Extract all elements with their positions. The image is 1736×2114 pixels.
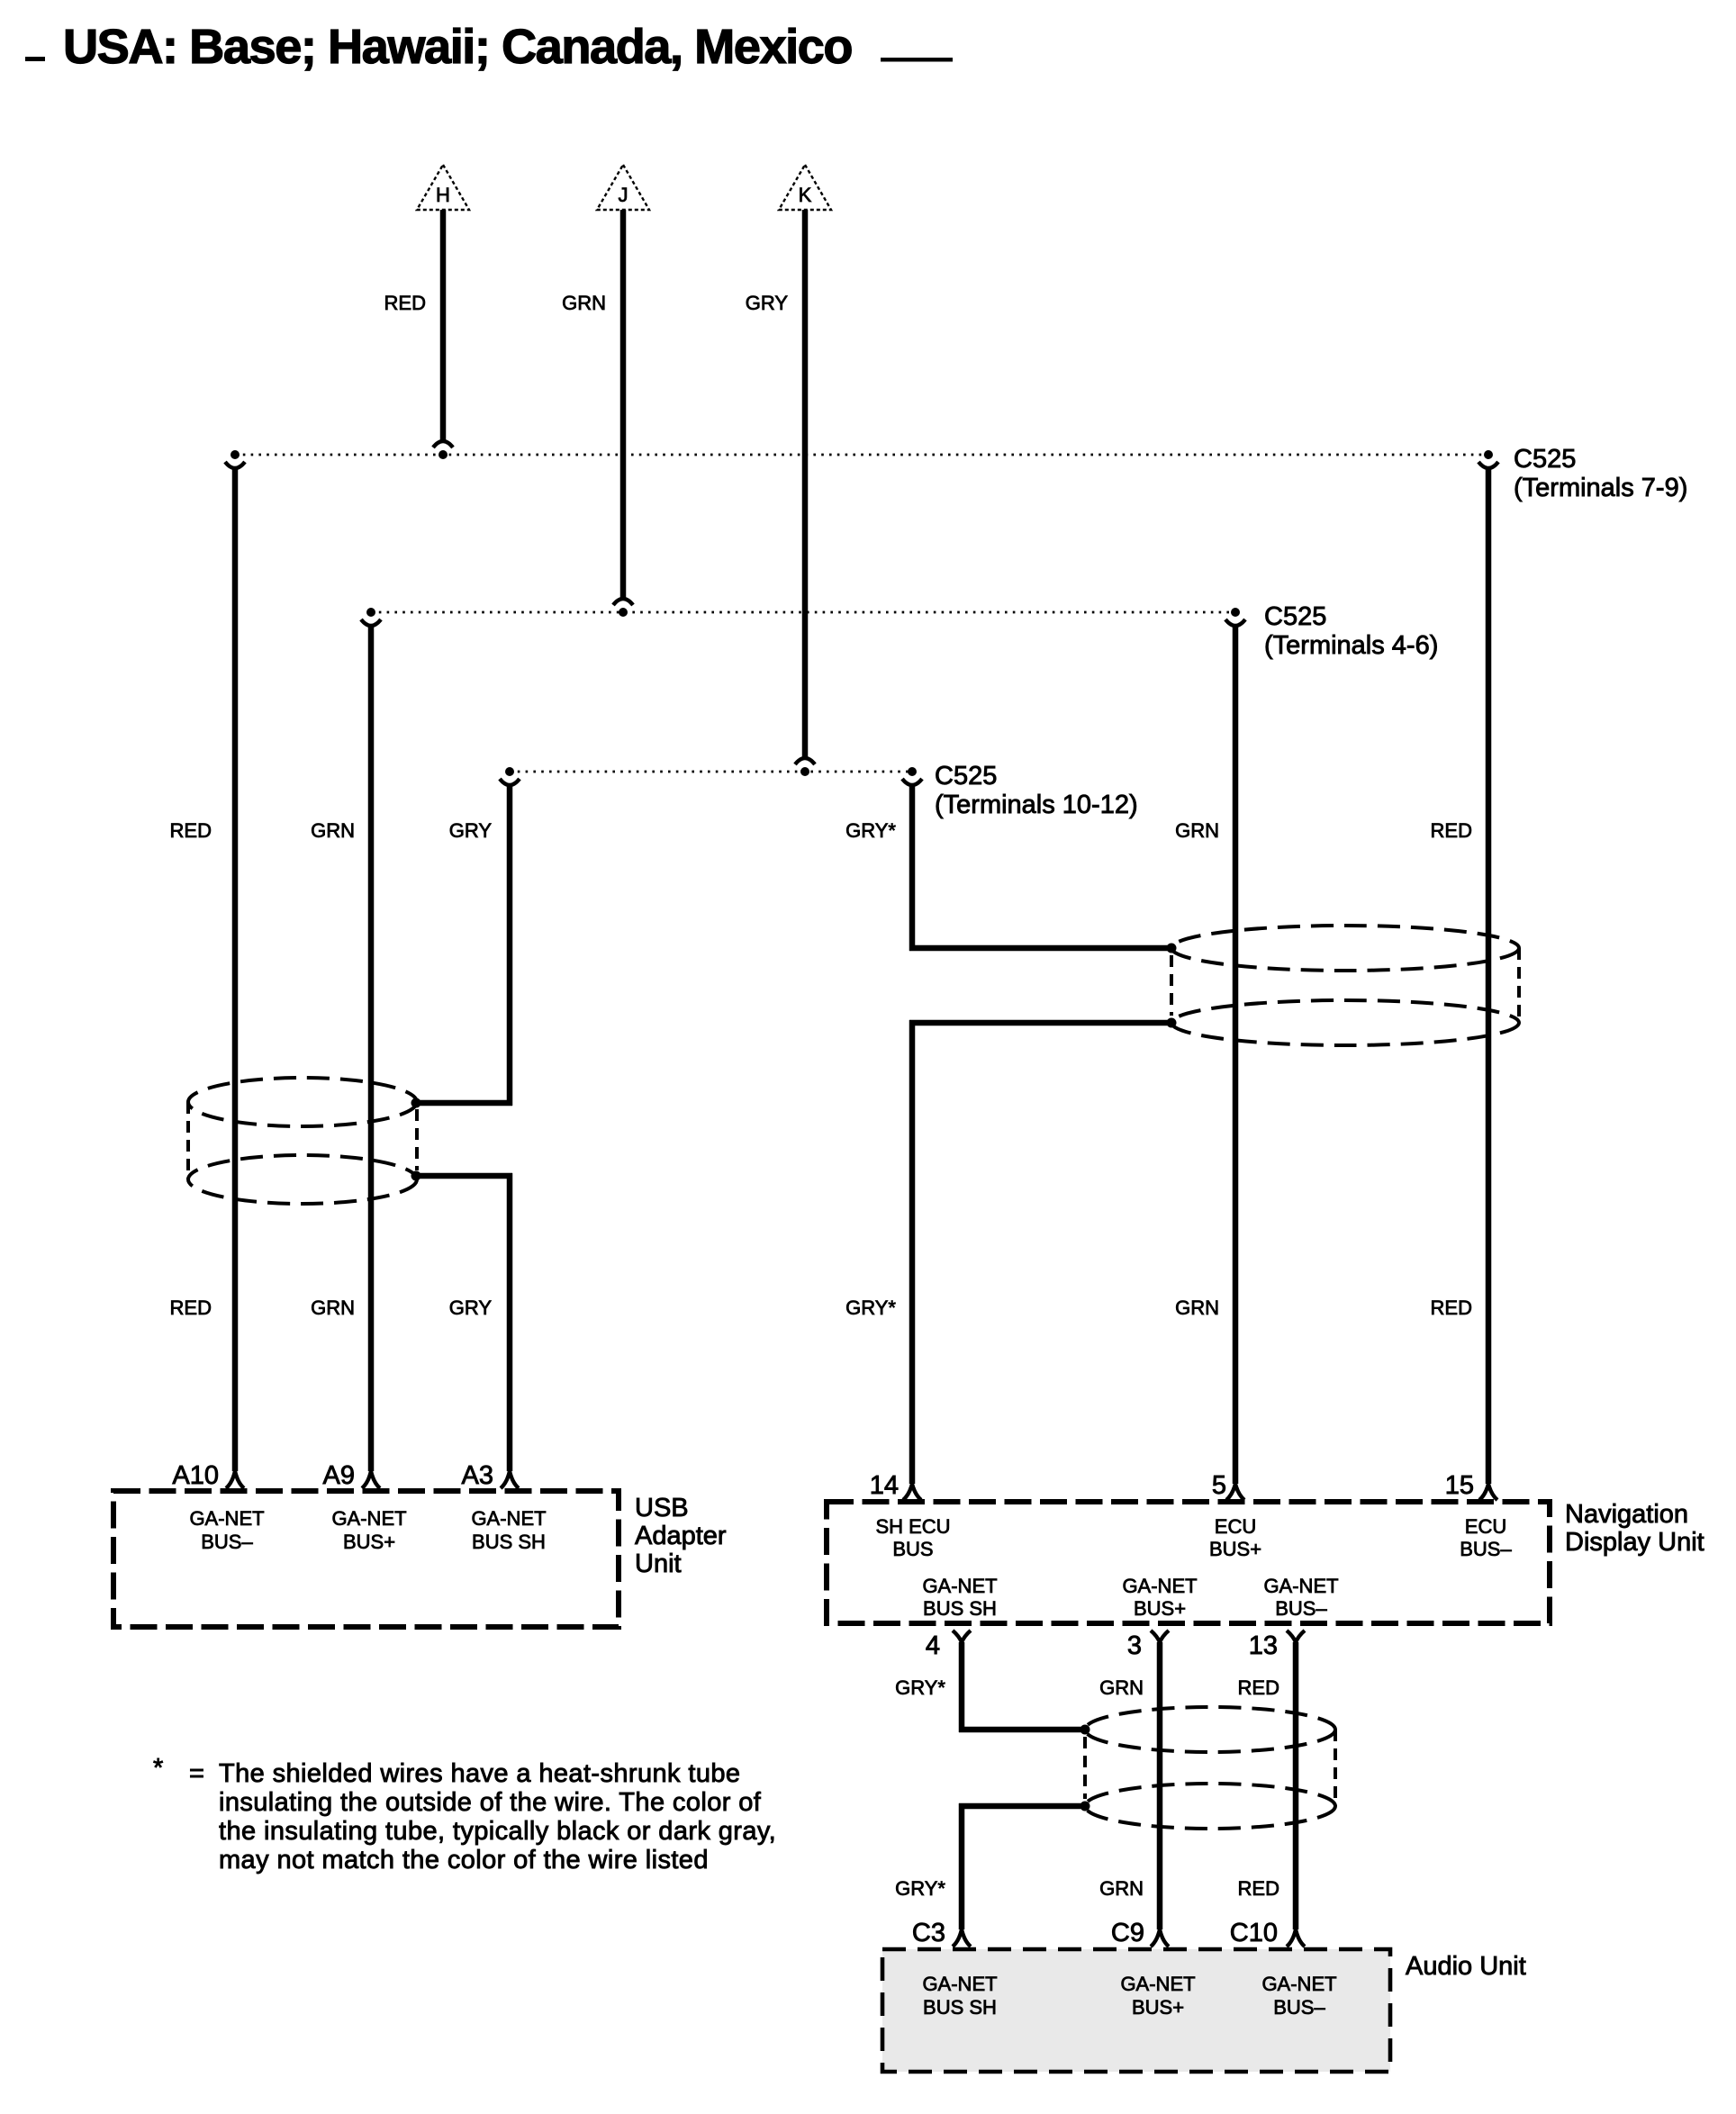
svg-text:ECU: ECU	[1465, 1515, 1506, 1538]
wire H (RED) from triangle H down to C525 terminals 7-9	[440, 210, 447, 442]
terminal fork 15	[1479, 1484, 1497, 1500]
terminal cup (GRN wire start) at C525 4-6 right	[1225, 619, 1245, 626]
svg-text:BUS SH: BUS SH	[923, 1597, 997, 1620]
terminal fork 13 (NAV bottom)	[1287, 1631, 1305, 1642]
svg-text:BUS SH: BUS SH	[923, 1996, 997, 2019]
svg-text:insulating the outside of the: insulating the outside of the wire. The …	[219, 1788, 762, 1817]
svg-text:GRY: GRY	[449, 1296, 493, 1319]
svg-text:14: 14	[870, 1471, 899, 1500]
junction dot left end C525 7-9	[231, 450, 240, 459]
svg-text:4: 4	[926, 1631, 940, 1660]
terminal fork A10	[226, 1471, 244, 1488]
svg-text:The shielded wires have a heat: The shielded wires have a heat-shrunk tu…	[219, 1759, 740, 1788]
wire GRN left (C525 4-6 to USB A9)	[368, 626, 375, 1471]
svg-text:GRY: GRY	[449, 819, 493, 842]
svg-text:BUS–: BUS–	[201, 1531, 253, 1553]
svg-text:=: =	[189, 1759, 204, 1788]
svg-text:A3: A3	[462, 1461, 493, 1490]
title trailing rule	[881, 58, 953, 62]
terminal cup (wire K end) at C525 10-12	[795, 758, 815, 764]
shield cylinder right (around GRN and RED wires)	[1171, 926, 1519, 1045]
svg-text:Navigation: Navigation	[1565, 1500, 1688, 1529]
wire RED right (C525 7-9 to NAV 15)	[1486, 468, 1492, 1484]
wire GRN audio (NAV 3 to AUDIO C9)	[1157, 1642, 1163, 1929]
connector C525 terminals 10-12 dotted junction line	[510, 771, 912, 773]
svg-text:BUS–: BUS–	[1460, 1538, 1512, 1560]
svg-text:GA-NET: GA-NET	[1261, 1973, 1336, 1995]
wire GRN right (C525 4-6 to NAV 5)	[1233, 626, 1239, 1484]
junction dot right end C525 7-9	[1484, 450, 1493, 459]
svg-text:A9: A9	[323, 1461, 355, 1490]
terminal fork 4 (NAV bottom)	[953, 1631, 971, 1642]
connector triangle J	[597, 165, 649, 210]
svg-text:C525: C525	[1514, 445, 1576, 474]
connector triangle K	[779, 165, 831, 210]
svg-text:Adapter: Adapter	[635, 1522, 727, 1550]
svg-text:RED: RED	[1238, 1877, 1279, 1900]
terminal fork C3	[953, 1929, 971, 1947]
svg-text:RED: RED	[170, 819, 212, 842]
terminal fork C10	[1287, 1929, 1305, 1947]
svg-text:(Terminals 10-12): (Terminals 10-12)	[935, 790, 1138, 819]
svg-text:BUS+: BUS+	[1209, 1538, 1261, 1560]
terminal fork 14	[903, 1484, 921, 1500]
junction dot K / C525 10-12	[800, 767, 809, 776]
terminal fork C9	[1151, 1929, 1169, 1947]
svg-text:GRY*: GRY*	[895, 1676, 945, 1699]
svg-text:GA-NET: GA-NET	[331, 1507, 406, 1530]
svg-text:BUS: BUS	[892, 1538, 933, 1560]
svg-text:*: *	[153, 1754, 163, 1783]
junction dot H / C525 7-9	[439, 450, 448, 459]
svg-text:BUS+: BUS+	[1134, 1597, 1186, 1620]
svg-text:BUS+: BUS+	[1132, 1996, 1184, 2019]
wire GRY* audio lower segment (shield to AUDIO C3)	[959, 1803, 965, 1929]
wire GRY* jog from audio shield bottom	[959, 1803, 1085, 1810]
svg-text:GRY*: GRY*	[845, 1296, 896, 1319]
wire GRY* jog to shield top (right)	[909, 945, 1171, 952]
svg-text:13: 13	[1249, 1631, 1278, 1660]
connector triangle H	[417, 165, 469, 210]
Navigation Display Unit box	[827, 1502, 1550, 1623]
wire GRY* audio upper segment (NAV 4 down)	[959, 1642, 965, 1732]
terminal cup (RED wire start) at C525 7-9 left	[225, 462, 245, 468]
terminal cup (RED wire start) at C525 7-9 right	[1478, 462, 1498, 468]
junction dot left end C525 4-6	[366, 608, 375, 617]
terminal fork A3	[501, 1471, 519, 1488]
svg-text:C525: C525	[935, 762, 997, 790]
svg-text:may not match the color of the: may not match the color of the wire list…	[219, 1846, 709, 1875]
svg-text:K: K	[799, 184, 812, 206]
svg-text:SH ECU: SH ECU	[875, 1515, 950, 1538]
wire GRY* right upper segment (C525 10-12 down)	[909, 785, 916, 951]
svg-text:A10: A10	[172, 1461, 219, 1490]
junction dot right end C525 4-6	[1231, 608, 1240, 617]
junction dot left end C525 10-12	[505, 767, 514, 776]
svg-text:Display Unit: Display Unit	[1565, 1528, 1704, 1557]
wire J (GRN) from triangle J down to C525 terminals 4-6	[620, 210, 627, 600]
wire RED audio (NAV 13 to AUDIO C10)	[1293, 1642, 1299, 1929]
terminal cup (wire H end) at C525 7-9	[433, 441, 453, 447]
svg-text:GA-NET: GA-NET	[189, 1507, 264, 1530]
terminal cup (GRN wire start) at C525 4-6 left	[361, 619, 381, 626]
svg-text:C525: C525	[1264, 602, 1326, 631]
svg-text:C9: C9	[1111, 1919, 1144, 1947]
shield cylinder audio (around GRN and RED wires)	[1085, 1707, 1335, 1829]
wire RED left (C525 7-9 to USB A10)	[232, 468, 239, 1471]
svg-text:5: 5	[1212, 1471, 1226, 1500]
svg-text:USA: Base; Hawaii; Canada, Mex: USA: Base; Hawaii; Canada, Mexico	[63, 20, 852, 74]
svg-text:GRN: GRN	[311, 1296, 355, 1319]
svg-text:BUS+: BUS+	[343, 1531, 395, 1553]
terminal fork 5	[1226, 1484, 1244, 1500]
terminal fork 3 (NAV bottom)	[1151, 1631, 1169, 1642]
svg-text:(Terminals 7-9): (Terminals 7-9)	[1514, 474, 1687, 502]
svg-text:GA-NET: GA-NET	[922, 1973, 997, 1995]
svg-text:Audio Unit: Audio Unit	[1406, 1952, 1526, 1981]
svg-text:GRN: GRN	[1175, 1296, 1219, 1319]
svg-text:the insulating tube, typically: the insulating tube, typically black or …	[219, 1817, 776, 1846]
wire GRY* right lower segment (shield to NAV 14)	[909, 1020, 916, 1484]
connector C525 terminals 7-9 dotted junction line	[235, 454, 1488, 456]
shield junction dot left-bottom	[411, 1171, 421, 1181]
wire GRY left upper segment (C525 10-12 down)	[507, 785, 513, 1106]
svg-text:(Terminals 4-6): (Terminals 4-6)	[1264, 631, 1438, 660]
Audio Unit box	[882, 1949, 1390, 2072]
svg-text:Unit: Unit	[635, 1549, 682, 1578]
shield junction dot right-bottom	[1167, 1018, 1177, 1028]
wire GRY* jog from shield bottom (right)	[909, 1020, 1171, 1026]
svg-text:ECU: ECU	[1215, 1515, 1256, 1538]
terminal cup (wire J end) at C525 4-6	[613, 599, 633, 605]
svg-text:H: H	[436, 184, 450, 206]
svg-text:GRN: GRN	[1099, 1676, 1144, 1699]
shield junction dot audio-top	[1080, 1725, 1090, 1735]
connector C525 terminals 4-6 dotted junction line	[371, 611, 1235, 614]
svg-text:GRN: GRN	[562, 292, 606, 314]
svg-text:3: 3	[1127, 1631, 1142, 1660]
wire GRY jog to shield top (left)	[416, 1100, 512, 1107]
svg-text:C3: C3	[912, 1919, 945, 1947]
svg-text:GA-NET: GA-NET	[1122, 1575, 1197, 1597]
wire GRY left lower segment (shield to USB A3)	[507, 1173, 513, 1471]
svg-text:J: J	[619, 184, 628, 206]
svg-text:GRN: GRN	[1175, 819, 1219, 842]
svg-text:BUS–: BUS–	[1275, 1597, 1327, 1620]
svg-text:GA-NET: GA-NET	[922, 1575, 997, 1597]
svg-text:RED: RED	[384, 292, 426, 314]
svg-text:RED: RED	[170, 1296, 212, 1319]
svg-text:GRY*: GRY*	[895, 1877, 945, 1900]
svg-text:GRY: GRY	[746, 292, 789, 314]
svg-text:C10: C10	[1230, 1919, 1278, 1947]
shield junction dot audio-bottom	[1080, 1802, 1090, 1811]
USB Adapter Unit box	[113, 1491, 619, 1627]
shield junction dot right-top	[1167, 944, 1177, 953]
terminal cup (GRY* wire start) at C525 10-12 right	[902, 779, 922, 785]
terminal cup (GRY wire start) at C525 10-12 left	[500, 779, 520, 785]
svg-text:GRN: GRN	[1099, 1877, 1144, 1900]
wire GRY* jog to audio shield top	[959, 1727, 1085, 1733]
wire GRY jog from shield bottom (left)	[416, 1173, 512, 1179]
svg-text:GRN: GRN	[311, 819, 355, 842]
svg-text:GA-NET: GA-NET	[1263, 1575, 1338, 1597]
shield cylinder left (around RED and GRN wires)	[188, 1078, 417, 1204]
junction dot J / C525 4-6	[619, 608, 628, 617]
wire K (GRY) from triangle K down to C525 terminals 10-12	[802, 210, 809, 759]
title leading dash	[25, 57, 45, 61]
junction dot right end C525 10-12	[908, 767, 917, 776]
shield junction dot left-top	[411, 1098, 421, 1108]
svg-text:RED: RED	[1238, 1676, 1279, 1699]
terminal fork A9	[362, 1471, 380, 1488]
svg-text:GRY*: GRY*	[845, 819, 896, 842]
svg-text:RED: RED	[1431, 819, 1472, 842]
svg-text:BUS SH: BUS SH	[472, 1531, 546, 1553]
svg-text:15: 15	[1445, 1471, 1474, 1500]
svg-text:USB: USB	[635, 1494, 689, 1522]
svg-text:RED: RED	[1431, 1296, 1472, 1319]
svg-text:GA-NET: GA-NET	[1120, 1973, 1195, 1995]
svg-text:GA-NET: GA-NET	[471, 1507, 546, 1530]
svg-text:BUS–: BUS–	[1273, 1996, 1325, 2019]
